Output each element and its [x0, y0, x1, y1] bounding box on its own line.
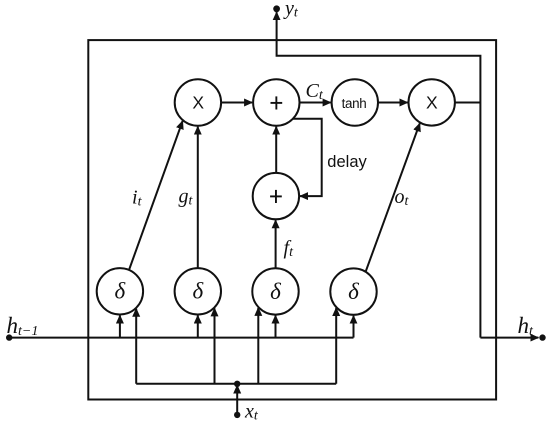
svg-text:yt: yt — [283, 0, 299, 21]
svg-text:gt: gt — [179, 186, 194, 209]
svg-text:tanh: tanh — [342, 96, 367, 111]
svg-text:δ: δ — [115, 279, 126, 304]
svg-text:X: X — [426, 93, 438, 113]
svg-text:δ: δ — [270, 279, 281, 304]
svg-text:xt: xt — [244, 401, 259, 424]
svg-text:δ: δ — [192, 279, 203, 304]
svg-text:Ct: Ct — [306, 80, 324, 103]
svg-text:delay: delay — [327, 153, 367, 171]
svg-text:ot: ot — [395, 186, 410, 209]
svg-text:X: X — [192, 93, 204, 113]
svg-text:it: it — [132, 187, 143, 210]
svg-text:δ: δ — [348, 279, 359, 304]
svg-text:ft: ft — [284, 237, 295, 260]
svg-text:ht−1: ht−1 — [7, 313, 39, 339]
svg-text:ht: ht — [518, 313, 535, 339]
